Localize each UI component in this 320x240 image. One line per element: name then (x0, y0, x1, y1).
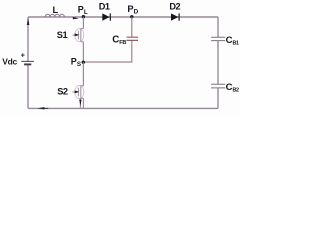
svg-text:D1: D1 (99, 1, 110, 11)
node P_S (82, 61, 85, 64)
wire: right rail (217, 17, 219, 108)
svg-text:CFB: CFB (112, 34, 126, 46)
battery Vdc plate short (24, 63, 31, 65)
svg-text:PD: PD (127, 4, 138, 16)
wire: C_FB branch (85, 17, 132, 62)
diode D2 (171, 13, 180, 20)
transistor S1 (73, 29, 84, 42)
svg-text:D2: D2 (169, 1, 180, 11)
wire: S2 source to bottom (80, 98, 83, 108)
svg-text:PS: PS (71, 57, 81, 69)
current arrow down (S2 source) (79, 100, 81, 106)
svg-text:CB1: CB1 (226, 35, 239, 47)
current arrow left (bottom rail) (38, 107, 49, 109)
current arrow up (left rail) (27, 18, 30, 25)
capacitor C_FB (127, 37, 139, 40)
wire: S2 drain from P_S (82, 62, 84, 86)
svg-text:CB2: CB2 (226, 82, 239, 94)
capacitor C_B1 (211, 37, 225, 40)
arrow S1 gate (75, 33, 80, 36)
svg-text:S1: S1 (57, 30, 68, 40)
svg-text:S2: S2 (57, 86, 68, 96)
node P_L (82, 15, 85, 18)
wire: switch branch drain S1 (82, 17, 84, 29)
wire: top rail (28, 16, 218, 18)
svg-text:PL: PL (78, 5, 88, 17)
inductor L (45, 14, 64, 17)
svg-text:+: + (21, 53, 25, 60)
wire: left rail (27, 17, 29, 108)
current arrow right (top rail) (73, 17, 79, 19)
battery Vdc plate long (21, 60, 34, 62)
wire: bottom rail (28, 107, 218, 109)
diode D1 (102, 13, 111, 20)
arrow S2 gate (75, 90, 80, 93)
transistor S2 (72, 86, 83, 99)
svg-text:L: L (52, 5, 58, 15)
capacitor C_B2 (211, 84, 225, 88)
wire: S1 source to P_S (82, 42, 84, 62)
node P_D (130, 15, 133, 18)
svg-text:Vdc: Vdc (2, 57, 17, 67)
